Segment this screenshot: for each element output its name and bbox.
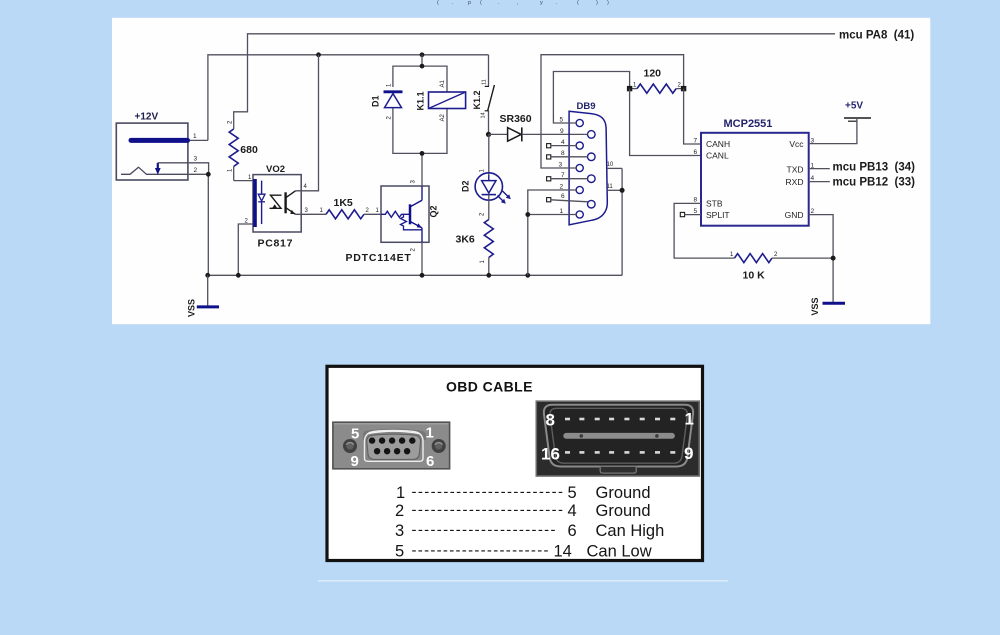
svg-text:SR360: SR360 bbox=[500, 113, 532, 125]
svg-text:OBD CABLE: OBD CABLE bbox=[446, 379, 533, 395]
IC U1 MCP2551 bbox=[694, 118, 815, 226]
svg-text:2: 2 bbox=[811, 208, 815, 215]
junction at relay loop top bbox=[420, 64, 425, 69]
svg-text:TXD: TXD bbox=[787, 164, 804, 174]
svg-text:y: y bbox=[540, 0, 543, 6]
svg-text:(: ( bbox=[480, 0, 482, 6]
resistor R 120 bbox=[630, 68, 684, 94]
wire: 680 bottom to VO2 pin1 bbox=[234, 180, 253, 182]
svg-text:VO2: VO2 bbox=[266, 164, 285, 175]
wire: STB loop to 10K bbox=[674, 203, 734, 258]
DB9 wire pin numbers bbox=[559, 116, 566, 215]
wire: DB9 pin2 to ground bbox=[528, 190, 576, 275]
svg-text:6: 6 bbox=[694, 149, 698, 156]
svg-text:(: ( bbox=[577, 0, 579, 6]
wire: GND stub down bbox=[809, 215, 833, 303]
wire: DB9 shell pin11 bbox=[607, 189, 622, 191]
svg-text:Can High: Can High bbox=[596, 522, 665, 540]
DB9 pin 2 circle bbox=[576, 186, 583, 193]
junction on +12V rail at relay drop bbox=[420, 52, 425, 57]
svg-text:): ) bbox=[596, 0, 598, 6]
svg-text:Vcc: Vcc bbox=[789, 139, 804, 149]
resistor R 3K6 bbox=[456, 220, 494, 276]
svg-text:7: 7 bbox=[561, 172, 565, 179]
wire: +12V pin2 to ground rail bbox=[188, 174, 208, 275]
svg-text:10: 10 bbox=[607, 162, 614, 168]
svg-text:5: 5 bbox=[351, 426, 359, 443]
svg-text:1: 1 bbox=[426, 425, 434, 442]
junction at K1.2 / SR360 / D2 bbox=[486, 132, 491, 137]
svg-text:4: 4 bbox=[568, 502, 577, 520]
relay coil K1.1 bbox=[416, 79, 466, 121]
svg-text:7: 7 bbox=[694, 137, 698, 144]
pin map row 4 bbox=[395, 542, 652, 561]
DB9 pin 7 circle bbox=[588, 175, 596, 183]
svg-text:A1: A1 bbox=[440, 79, 446, 87]
resistor R 1K5 bbox=[320, 197, 370, 219]
svg-text:2: 2 bbox=[395, 502, 404, 520]
junction shell pin11 bbox=[620, 188, 625, 193]
svg-text:4: 4 bbox=[561, 139, 565, 146]
svg-text:mcu PA8 (41): mcu PA8 (41) bbox=[839, 29, 914, 41]
svg-text:D1: D1 bbox=[371, 95, 381, 107]
svg-text:1: 1 bbox=[560, 208, 564, 215]
junction rail at VO2 pin2 bbox=[236, 273, 241, 278]
svg-text:RXD: RXD bbox=[786, 177, 804, 187]
wire: Q2 emitter down to ground rail bbox=[421, 242, 423, 275]
connector J1 +12V box bbox=[116, 112, 197, 180]
svg-text:2: 2 bbox=[194, 167, 198, 174]
svg-text:3K6: 3K6 bbox=[456, 234, 475, 246]
svg-text:+12V: +12V bbox=[135, 112, 159, 123]
optocoupler VO2 PC817 bbox=[245, 164, 309, 249]
DB9 pin 5 circle bbox=[576, 119, 583, 126]
svg-text:14: 14 bbox=[481, 112, 487, 118]
pin map row 1 bbox=[396, 484, 651, 503]
junction rail at 3K6 bbox=[486, 273, 491, 278]
port stub DB9 pin4 bbox=[547, 144, 577, 148]
svg-text:8: 8 bbox=[694, 197, 698, 204]
svg-text:-----------------------: ----------------------- bbox=[412, 522, 556, 539]
svg-text:1K5: 1K5 bbox=[334, 197, 353, 209]
power +5V bbox=[809, 101, 871, 144]
transistor Q2 PDTC114ET bbox=[346, 180, 439, 265]
wire: TXD stub bbox=[809, 168, 830, 170]
junction DB9 pin1/pin2 bbox=[525, 212, 530, 217]
svg-text:2: 2 bbox=[560, 183, 564, 190]
svg-text:CANH: CANH bbox=[706, 139, 730, 149]
port stub DB9 pin7 bbox=[547, 177, 588, 181]
ground VSS right bbox=[810, 297, 845, 315]
faint reflection line under panel bbox=[318, 580, 728, 582]
svg-text:120: 120 bbox=[644, 68, 662, 80]
DB9 shell pin labels bbox=[607, 162, 614, 190]
wire: DB9 pin5 to CANL loop bbox=[553, 72, 629, 124]
DB9 pin 1 circle bbox=[576, 211, 583, 218]
LED D2 bbox=[460, 134, 511, 219]
svg-text:680: 680 bbox=[240, 144, 258, 156]
svg-text:11: 11 bbox=[607, 184, 614, 190]
bottom OBD cable white panel bbox=[327, 366, 703, 560]
svg-text:PC817: PC817 bbox=[258, 238, 294, 250]
svg-text:K1.1: K1.1 bbox=[416, 91, 426, 110]
junction 120 pin1 bbox=[627, 86, 632, 91]
wire: top net from 680 to mcu PA8 bbox=[234, 34, 835, 124]
svg-text:----------------------: ---------------------- bbox=[412, 542, 549, 559]
junction on +12V rail at VO2 pin4 drop bbox=[316, 52, 321, 57]
pin map row 2 bbox=[395, 501, 651, 520]
wire: +12V pin1 stub bbox=[188, 139, 208, 141]
svg-text:------------------------: ------------------------ bbox=[412, 501, 564, 518]
svg-text:8: 8 bbox=[561, 150, 565, 157]
svg-text:mcu PB13 (34): mcu PB13 (34) bbox=[833, 162, 916, 174]
wire: VO2 pin3 to 1K5 bbox=[296, 213, 327, 215]
port stub SPLIT pin5 bbox=[680, 212, 701, 216]
svg-text:+5V: +5V bbox=[845, 101, 863, 112]
svg-text:1: 1 bbox=[685, 410, 694, 429]
port stub DB9 pin8 bbox=[547, 155, 588, 159]
junction rail at VSS drop bbox=[205, 273, 210, 278]
resistor R 680 bbox=[228, 120, 258, 181]
junction 120 pin2 bbox=[681, 86, 686, 91]
DB9 pin 6 circle bbox=[588, 200, 596, 208]
DB9 pin 8 circle bbox=[588, 153, 596, 161]
pin map row 3 bbox=[395, 522, 664, 541]
svg-text:6: 6 bbox=[568, 522, 577, 540]
svg-text:p: p bbox=[468, 0, 471, 6]
svg-text:Q2: Q2 bbox=[429, 205, 439, 217]
wire: CANH vertical to MCP bbox=[684, 89, 701, 144]
wire: VO2 pin4 up to +12V rail bbox=[296, 55, 319, 191]
wire: DB9 shell pin10 bbox=[607, 167, 622, 169]
diode D1 bbox=[371, 83, 403, 120]
svg-text:VSS: VSS bbox=[810, 297, 820, 315]
svg-text:------------------------: ------------------------ bbox=[412, 484, 564, 501]
svg-text:CANL: CANL bbox=[706, 151, 729, 161]
wire: +12V pin3 to pin2 junction bbox=[158, 163, 209, 175]
svg-text:Can Low: Can Low bbox=[587, 543, 652, 561]
svg-text:5: 5 bbox=[694, 208, 698, 215]
svg-text:4: 4 bbox=[811, 175, 815, 182]
svg-text:A2: A2 bbox=[440, 113, 446, 121]
svg-text:1: 1 bbox=[193, 133, 197, 140]
svg-text:D2: D2 bbox=[460, 180, 470, 192]
port stub DB9 pin6 bbox=[547, 198, 588, 202]
wire: DB9 pin9 from SR360 bbox=[584, 133, 587, 135]
svg-text:9: 9 bbox=[351, 453, 359, 470]
svg-text:1: 1 bbox=[396, 484, 405, 502]
DB9 pin 4 circle bbox=[576, 142, 583, 149]
wire: shell drop to ground rail bbox=[621, 168, 623, 275]
wire: CANL vertical to MCP bbox=[630, 89, 701, 156]
svg-text:3: 3 bbox=[395, 522, 404, 540]
svg-text:5: 5 bbox=[395, 543, 404, 561]
svg-text:Ground: Ground bbox=[596, 502, 651, 520]
DB9 pin 3 circle bbox=[576, 164, 583, 171]
svg-text:6: 6 bbox=[426, 453, 434, 470]
svg-text:3: 3 bbox=[194, 156, 198, 163]
svg-text:8: 8 bbox=[546, 411, 555, 430]
svg-text:16: 16 bbox=[541, 445, 560, 464]
junction at +12V pin2/3 bbox=[206, 172, 211, 177]
svg-text:10 K: 10 K bbox=[743, 270, 766, 282]
wire: Q2 collector up to relay loop bbox=[421, 153, 423, 186]
svg-text:STB: STB bbox=[706, 199, 723, 209]
svg-text:14: 14 bbox=[554, 543, 572, 561]
diode SR360 bbox=[489, 113, 585, 142]
DB9 pin 9 circle bbox=[588, 131, 596, 139]
relay contact K1.2 bbox=[472, 55, 495, 135]
svg-text:11: 11 bbox=[482, 79, 488, 85]
ground VSS left bbox=[187, 275, 220, 317]
svg-text:MCP2551: MCP2551 bbox=[724, 118, 773, 130]
ground rail wire bbox=[208, 274, 622, 276]
DB9 connector photo bbox=[333, 422, 450, 470]
OBD-II connector photo bbox=[536, 401, 699, 476]
svg-text:5: 5 bbox=[568, 484, 577, 502]
svg-text:SPLIT: SPLIT bbox=[706, 210, 730, 220]
svg-text:GND: GND bbox=[785, 210, 804, 220]
svg-text:): ) bbox=[607, 0, 609, 6]
cropped text fragments at top edge bbox=[437, 0, 609, 6]
wire: +12V rail y=54.8 bbox=[208, 55, 489, 141]
wire: 1K5 to Q2 pin1 bbox=[364, 213, 381, 215]
svg-text:(: ( bbox=[437, 0, 439, 6]
svg-text:PDTC114ET: PDTC114ET bbox=[346, 252, 412, 264]
junction at relay loop bottom bbox=[420, 151, 425, 156]
svg-text:Ground: Ground bbox=[596, 484, 651, 502]
wire: DB9 pin1 to ground bbox=[528, 214, 576, 216]
svg-text:VSS: VSS bbox=[187, 299, 197, 317]
top schematic white panel bbox=[112, 18, 930, 324]
resistor R 10K bbox=[730, 252, 833, 282]
svg-text:9: 9 bbox=[684, 444, 693, 463]
junction rail at DB9 ground wire bbox=[525, 273, 530, 278]
junction rail at Q2 emitter bbox=[420, 273, 425, 278]
svg-text:3: 3 bbox=[559, 161, 563, 168]
junction GND/10K bbox=[831, 256, 836, 261]
svg-text:9: 9 bbox=[560, 128, 564, 135]
svg-text:6: 6 bbox=[561, 193, 565, 200]
wire: VO2 pin2 down to ground rail bbox=[238, 224, 253, 275]
wire: D1/K1.1 parallel loop bbox=[393, 55, 447, 154]
svg-text:mcu PB12 (33): mcu PB12 (33) bbox=[833, 176, 916, 188]
svg-text:K1.2: K1.2 bbox=[472, 90, 482, 109]
svg-text:5: 5 bbox=[560, 116, 564, 123]
wire: DB9 pin3 to CANH net bbox=[541, 55, 684, 168]
wire: RXD stub bbox=[809, 181, 830, 183]
svg-text:DB9: DB9 bbox=[577, 101, 596, 112]
connector DB9 body bbox=[569, 101, 607, 225]
